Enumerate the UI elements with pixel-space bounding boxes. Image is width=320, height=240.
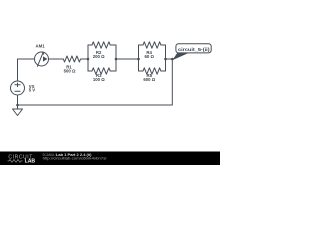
junction dot block1 right [115, 58, 118, 61]
parallel block 1 right bar [115, 45, 117, 71]
resistor R3 (bottom branch) [88, 68, 116, 74]
parallel block 2 left bar [138, 45, 140, 71]
svg-text:AM1: AM1 [36, 44, 46, 49]
svg-text:60 Ω: 60 Ω [144, 54, 154, 59]
parallel block 2 right bar [165, 45, 167, 71]
svg-text:500 Ω: 500 Ω [64, 69, 76, 74]
logo resistor zigzag [8, 160, 23, 163]
resistor R2 (top branch) [88, 42, 116, 48]
ground [13, 105, 23, 116]
junction dot output node [171, 58, 174, 61]
flag box [176, 44, 211, 53]
ammeter AM1 [35, 52, 49, 66]
svg-text:5 V: 5 V [29, 88, 36, 93]
parallel block 1 left bar [87, 45, 89, 71]
flag tail [172, 53, 189, 60]
junction dot block1 left [87, 58, 90, 61]
junction dot block2 left [137, 58, 140, 61]
resistor R5 (bottom branch) [139, 68, 166, 74]
wire VS top to ammeter [18, 59, 35, 81]
wire block1 to block2 [116, 58, 139, 60]
svg-text:circuit_5-(ii): circuit_5-(ii) [178, 47, 210, 52]
wire VS bottom to ground node [17, 95, 19, 105]
svg-text:LAB: LAB [25, 159, 36, 165]
voltage source VS [11, 81, 25, 95]
svg-text:600 Ω: 600 Ω [143, 77, 155, 82]
junction dot ground node [16, 104, 19, 107]
svg-text:200 Ω: 200 Ω [93, 54, 105, 59]
resistor R1 [63, 56, 88, 62]
ammeter arrow head [43, 56, 47, 61]
footer bar [0, 152, 220, 166]
wire output node down and bottom rail [18, 59, 173, 105]
resistor R4 (top branch) [139, 42, 166, 48]
wire block2 to output node [166, 58, 173, 60]
svg-text:http://circuitlab.com/c6brk4vb: http://circuitlab.com/c6brk4vbn7sr [43, 155, 108, 160]
wire ammeter to R1 [49, 58, 64, 60]
svg-text:100 Ω: 100 Ω [93, 77, 105, 82]
junction dot block2 right [164, 58, 167, 61]
